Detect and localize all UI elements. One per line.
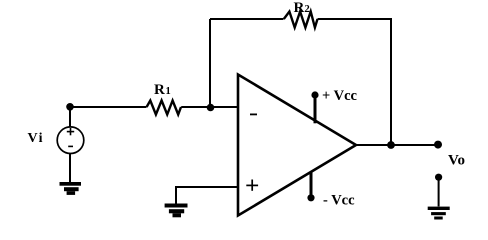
wire feedback right vertical (390, 18, 392, 145)
inverting input label - (250, 113, 257, 115)
ground (non-inverting input) (165, 204, 188, 218)
node A junction dot (R1 / R2 / op-amp) (207, 104, 215, 112)
resistor R1 (147, 101, 181, 115)
ground (below Vi) (60, 182, 82, 195)
voltage source Vi (57, 108, 84, 182)
resistor R2 (284, 12, 318, 28)
-Vcc supply pin (307, 172, 314, 201)
non-inverting input label + (246, 180, 258, 191)
svg-text:Vo: Vo (448, 153, 465, 169)
node dot ground reference (435, 174, 442, 181)
wire top feedback rail right segment (318, 18, 392, 20)
ground (output reference) (428, 207, 450, 220)
op-amp U1 (238, 75, 356, 216)
svg-text:2: 2 (305, 4, 310, 15)
node dot output terminal (434, 141, 442, 149)
wire non-inverting input to ground (176, 187, 238, 204)
svg-text:- Vcc: - Vcc (323, 193, 355, 209)
svg-text:R: R (154, 82, 165, 98)
svg-text:Vi: Vi (28, 131, 44, 146)
node dot at Vi top (66, 103, 74, 111)
node dot output junction (387, 141, 395, 149)
wire output (356, 144, 438, 146)
+Vcc supply pin (311, 91, 318, 123)
wire R1 to inverting input (181, 106, 238, 108)
wire top feedback rail left segment (210, 18, 284, 20)
svg-text:+ Vcc: + Vcc (322, 88, 358, 104)
svg-text:R: R (294, 0, 305, 16)
wire input to R1 (70, 106, 147, 108)
wire feedback left vertical (209, 19, 211, 107)
svg-text:1: 1 (166, 86, 171, 97)
wire Vo ground stub (438, 177, 440, 206)
